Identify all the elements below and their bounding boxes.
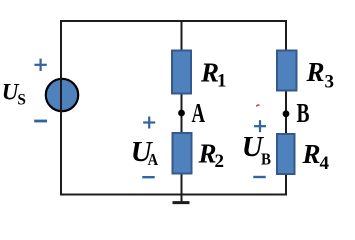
- stray red mark: [257, 105, 259, 106]
- label US: [2, 79, 26, 108]
- label R2: [198, 138, 225, 172]
- polarity plus of UB: [254, 120, 266, 132]
- polarity minus of US: [34, 120, 47, 123]
- label R3: [306, 57, 335, 93]
- resistor R3: [277, 51, 297, 91]
- polarity minus of UA: [142, 176, 154, 178]
- svg-text:R: R: [302, 139, 321, 169]
- wire top horizontal: [60, 20, 287, 22]
- svg-text:3: 3: [325, 72, 335, 93]
- wire left vertical: [60, 20, 62, 196]
- svg-text:B: B: [297, 98, 310, 128]
- polarity plus of UA: [143, 117, 155, 129]
- ground: [173, 195, 190, 203]
- polarity plus of US: [34, 59, 46, 71]
- resistor R4: [277, 134, 295, 174]
- svg-text:S: S: [17, 92, 26, 109]
- wire bottom horizontal: [60, 194, 287, 196]
- label R4: [302, 139, 330, 174]
- wire right branch: [285, 20, 287, 196]
- wire middle branch: [181, 20, 183, 196]
- label R1: [200, 57, 227, 91]
- label UB: [242, 131, 271, 168]
- resistor R2: [173, 133, 192, 174]
- svg-text:B: B: [261, 149, 271, 168]
- svg-text:A: A: [192, 98, 206, 128]
- svg-text:4: 4: [320, 153, 330, 174]
- svg-text:R: R: [306, 57, 325, 87]
- voltage source US: [46, 79, 78, 111]
- node A junction dot: [178, 110, 185, 117]
- label UA: [131, 136, 159, 169]
- polarity minus of UB: [253, 176, 265, 178]
- svg-text:A: A: [148, 150, 159, 169]
- resistor R1: [172, 51, 191, 94]
- node B junction dot: [283, 110, 290, 117]
- svg-text:1: 1: [217, 70, 227, 91]
- svg-text:2: 2: [215, 151, 225, 172]
